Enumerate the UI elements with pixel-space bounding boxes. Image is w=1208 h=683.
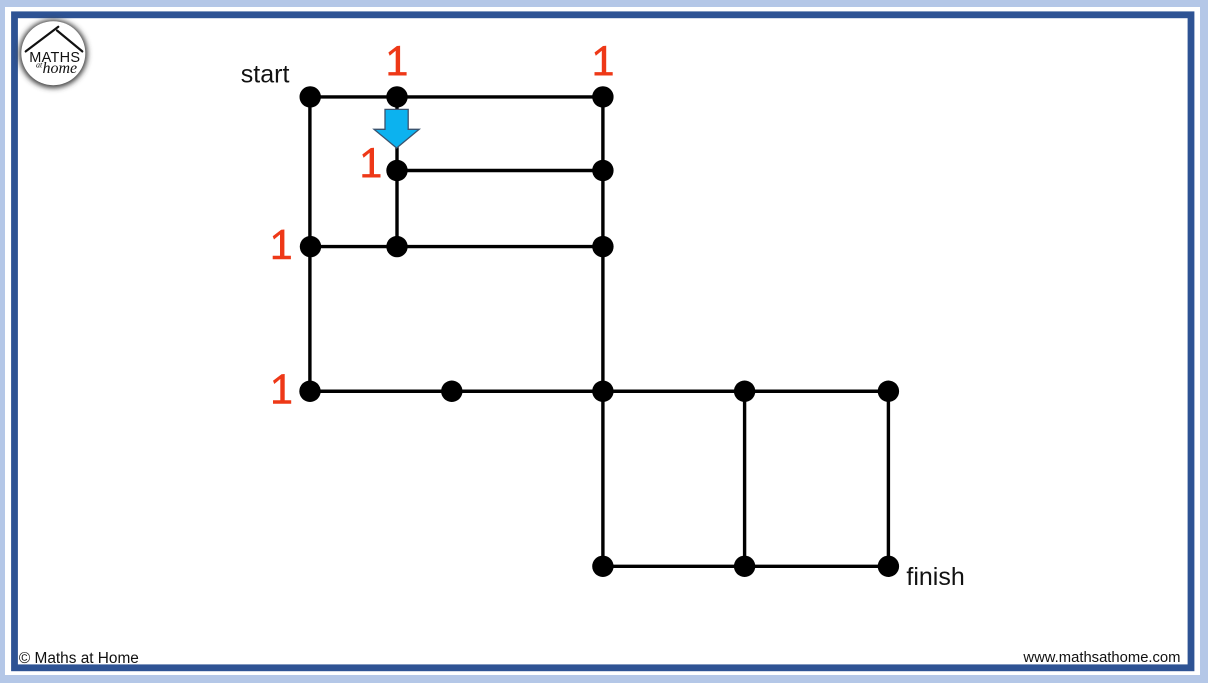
label 1 above node A2 <box>388 46 406 76</box>
node E5 (finish) <box>878 556 899 577</box>
node E4 <box>734 556 755 577</box>
label 1 above node A3 <box>595 46 613 76</box>
edge D4-E4 vertical <box>743 391 746 566</box>
logo circle <box>21 21 85 85</box>
svg-text:home: home <box>43 60 78 77</box>
edge A3-E3 right long vertical <box>601 97 604 566</box>
edge D5-E5 vertical <box>887 391 890 566</box>
node A2 <box>386 86 407 107</box>
label 1 left of node B2 <box>362 148 380 178</box>
node B2 <box>386 160 407 181</box>
node C2 <box>386 236 407 257</box>
node D1 <box>299 381 320 402</box>
edge D1-D5 long horizontal <box>310 390 889 393</box>
edge A1-D1 left vertical <box>308 97 311 391</box>
edge E3-E5 bottom horizontal <box>603 565 889 568</box>
node E3 <box>592 556 613 577</box>
edge B2-C2 vertical <box>395 171 398 247</box>
node B3 <box>592 160 613 181</box>
node C3 <box>592 236 613 257</box>
node A1 (start) <box>300 86 321 107</box>
label 1 left of node D1 <box>273 374 291 404</box>
node D2 <box>441 381 462 402</box>
svg-text:start: start <box>241 61 290 89</box>
node A3 <box>592 86 613 107</box>
edge B2-B3 horizontal <box>397 169 603 172</box>
blue down arrow <box>374 109 419 148</box>
node C1 <box>300 236 321 257</box>
node D5 <box>878 381 899 402</box>
edge A2-B2 vertical under arrow <box>395 97 398 171</box>
node D4 <box>734 381 755 402</box>
edge A1-A3 top horizontal <box>310 95 603 98</box>
svg-text:www.mathsathome.com: www.mathsathome.com <box>1022 650 1180 666</box>
svg-text:finish: finish <box>906 563 964 591</box>
label 1 left of node C1 <box>273 230 291 260</box>
svg-text:© Maths at Home: © Maths at Home <box>19 650 139 667</box>
edge C1-C3 horizontal <box>310 245 603 248</box>
logo shadow <box>19 20 87 88</box>
node D3 <box>592 381 613 402</box>
logo roof <box>26 27 83 52</box>
